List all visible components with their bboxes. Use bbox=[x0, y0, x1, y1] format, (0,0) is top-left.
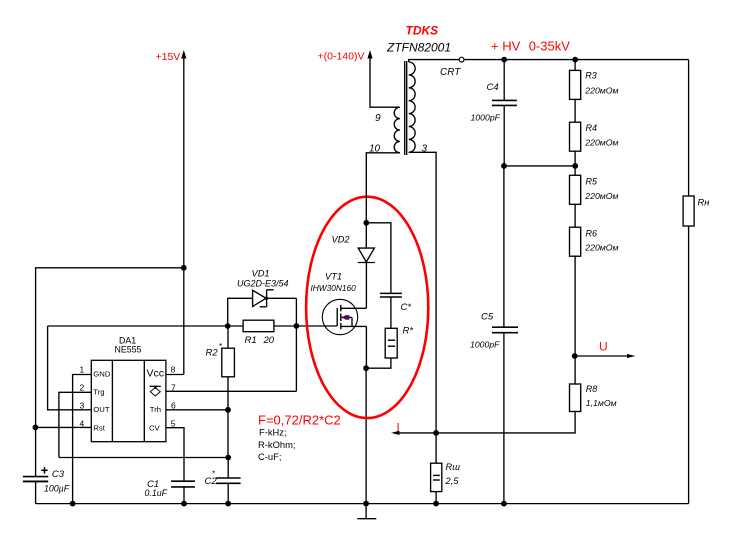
svg-text:4: 4 bbox=[80, 418, 85, 428]
label Rsh 2,5 bbox=[445, 462, 461, 486]
svg-text:C-uF;: C-uF; bbox=[258, 451, 281, 462]
label + HV 0-35kV bbox=[491, 38, 570, 53]
wire VD2 anode to top node bbox=[365, 223, 367, 248]
label pin names bbox=[93, 368, 164, 433]
label R* bbox=[403, 326, 414, 337]
node +15V/reset tee bbox=[181, 265, 187, 271]
wire C* to R* bbox=[390, 297, 392, 328]
svg-text:R1: R1 bbox=[245, 335, 257, 346]
transistor VT1 gate bar bbox=[336, 308, 338, 326]
svg-text:F=0,72/R2*C2: F=0,72/R2*C2 bbox=[258, 413, 341, 428]
resistor R2 bbox=[227, 326, 229, 458]
svg-text:VD1: VD1 bbox=[252, 268, 270, 278]
node Trh/R2 bbox=[225, 407, 231, 413]
label TDKS bbox=[406, 24, 439, 38]
wire +15V rail vertical bbox=[183, 54, 185, 375]
svg-text:8: 8 bbox=[171, 365, 176, 375]
svg-text:2,5: 2,5 bbox=[445, 476, 460, 486]
node gnd: source line bbox=[363, 501, 369, 507]
diode VD1 bbox=[253, 290, 266, 306]
node gnd: C5 bbox=[501, 501, 507, 507]
diode VD2 bbox=[358, 248, 374, 262]
discharge open-drain symbol pin7 bbox=[150, 385, 161, 387]
power +15V label bbox=[156, 51, 181, 63]
svg-text:20: 20 bbox=[263, 335, 275, 346]
svg-text:UG2D-E3/54: UG2D-E3/54 bbox=[237, 278, 289, 288]
svg-text:R4: R4 bbox=[586, 123, 598, 133]
power +(0-140)V label bbox=[318, 51, 365, 63]
svg-text:6: 6 bbox=[171, 401, 176, 411]
wire pin6 Trh stub bbox=[166, 409, 228, 411]
resistor R5 bbox=[570, 175, 581, 204]
svg-text:R2: R2 bbox=[206, 348, 219, 359]
svg-text:CRT: CRT bbox=[440, 67, 461, 78]
node R3 top bbox=[572, 57, 578, 63]
label CRT bbox=[440, 67, 461, 78]
label I current arrow bbox=[397, 423, 400, 435]
label C* bbox=[401, 302, 412, 313]
node U tap bbox=[572, 353, 578, 359]
wire Trg bottom run bbox=[59, 457, 228, 459]
transformer T1 primary winding bbox=[394, 107, 400, 153]
node C4 top bbox=[501, 57, 507, 63]
resistor R* bbox=[385, 328, 397, 358]
resistor R6 bbox=[570, 227, 581, 256]
label Rn bbox=[698, 198, 710, 208]
resistor R1 bbox=[243, 320, 274, 332]
svg-text:0-35kV: 0-35kV bbox=[529, 38, 571, 53]
op-amp U1 : timer DA1 NE555 body bbox=[91, 360, 166, 441]
node gate-drive left bbox=[225, 323, 231, 329]
wire supply to primary top bbox=[370, 54, 400, 107]
ground rail bbox=[36, 503, 689, 505]
svg-text:Vcc: Vcc bbox=[147, 368, 165, 380]
label VT1 bbox=[311, 272, 357, 294]
svg-text:Rst: Rst bbox=[93, 424, 105, 433]
node gnd: C2 bbox=[225, 501, 231, 507]
capacitor C* plates bbox=[380, 292, 402, 294]
svg-text:220мОм: 220мОм bbox=[584, 86, 618, 96]
svg-text:2: 2 bbox=[80, 383, 85, 393]
svg-text:C*: C* bbox=[401, 302, 412, 313]
svg-text:GND: GND bbox=[93, 370, 111, 379]
wire pin4 Rst stub bbox=[36, 426, 92, 428]
svg-text:220мОм: 220мОм bbox=[584, 191, 618, 201]
wire secondary bottom pin3 drop bbox=[409, 152, 436, 433]
svg-text:220мОм: 220мОм bbox=[584, 138, 618, 148]
svg-text:R*: R* bbox=[403, 326, 414, 337]
label ZTFN82001 bbox=[386, 41, 451, 55]
node drain top bbox=[363, 220, 369, 226]
label pin 9 bbox=[375, 113, 381, 124]
wire pin7 stub bbox=[166, 390, 297, 392]
svg-text:U: U bbox=[599, 340, 608, 354]
wire OUT gate run bbox=[48, 325, 338, 327]
svg-text:Trg: Trg bbox=[93, 388, 104, 397]
label C2* bbox=[205, 470, 218, 488]
wire pin1 GND stub bbox=[73, 375, 92, 504]
wire R* bottom to source node bbox=[366, 358, 391, 368]
svg-text:IHW30N160: IHW30N160 bbox=[311, 283, 357, 293]
transistor VT1 drain lead bbox=[341, 307, 367, 309]
label VD2 bbox=[332, 235, 351, 245]
label C1 bbox=[145, 479, 168, 498]
svg-text:C3: C3 bbox=[52, 469, 65, 480]
svg-text:0.1uF: 0.1uF bbox=[145, 488, 168, 498]
svg-text:R8: R8 bbox=[586, 384, 598, 394]
wire R5-R6 bbox=[574, 204, 576, 227]
svg-text:Trh: Trh bbox=[150, 405, 161, 414]
label VD1 bbox=[237, 268, 289, 288]
highlight ellipse bbox=[306, 197, 428, 418]
svg-text:1: 1 bbox=[80, 365, 85, 375]
node Trg/C2 bbox=[225, 455, 231, 461]
node C4/C5 bbox=[501, 163, 507, 169]
resistor R8 bbox=[570, 384, 581, 412]
svg-text:+(0-140)V: +(0-140)V bbox=[318, 51, 365, 63]
svg-text:100µF: 100µF bbox=[44, 483, 70, 493]
resistor Rsh bbox=[435, 433, 437, 463]
wire R8 bottom run with current arrow bbox=[399, 412, 575, 433]
node gate-drive right bbox=[294, 323, 300, 329]
node Rst junction bbox=[33, 425, 39, 431]
capacitor C2 plates bbox=[216, 477, 241, 479]
wire source line to ground bbox=[365, 326, 367, 368]
wire R6 to U node bbox=[574, 256, 576, 384]
label C3 bbox=[44, 469, 70, 494]
label pin 3 bbox=[422, 144, 428, 155]
wire pin3 OUT stub bbox=[48, 326, 92, 410]
svg-text:R6: R6 bbox=[586, 229, 598, 239]
wire pin7 riser bbox=[295, 298, 297, 391]
transformer T1 secondary winding bbox=[409, 62, 415, 152]
wire top horizontal to reset branch bbox=[36, 268, 184, 477]
power +(0-140)V arrow bbox=[367, 50, 372, 59]
label R1 20 bbox=[245, 335, 275, 346]
svg-text:VT1: VT1 bbox=[325, 272, 342, 282]
ground symbol bbox=[365, 504, 367, 519]
node R4/R5 bbox=[572, 163, 578, 169]
power +15V arrow bbox=[181, 50, 186, 59]
wire U arrow bbox=[575, 355, 630, 357]
wire pin8 Vcc stub bbox=[166, 374, 184, 376]
wire VD1 branch bbox=[228, 298, 297, 326]
svg-text:OUT: OUT bbox=[93, 405, 110, 414]
svg-text:R5: R5 bbox=[586, 177, 598, 187]
wire secondary top to CRT terminal bbox=[409, 60, 460, 62]
svg-text:VD2: VD2 bbox=[332, 235, 351, 245]
wire pin2 Trg stub bbox=[59, 392, 91, 457]
wire C1 to rail bbox=[183, 487, 185, 504]
pin numbers bbox=[80, 365, 177, 429]
svg-text:1000pF: 1000pF bbox=[471, 113, 501, 123]
transistor VT1 body arrow bbox=[351, 317, 353, 326]
svg-text:1000pF: 1000pF bbox=[470, 340, 500, 350]
svg-text:C4: C4 bbox=[487, 82, 499, 93]
node gnd: Rsh bbox=[433, 501, 439, 507]
svg-text:ZTFN82001: ZTFN82001 bbox=[386, 41, 451, 55]
capacitor C1 plates bbox=[171, 480, 195, 482]
node CRT terminal bbox=[459, 57, 464, 62]
svg-text:Rш: Rш bbox=[446, 462, 461, 472]
svg-text:+15V: +15V bbox=[156, 51, 181, 63]
transistor Q1 : MOSFET VT1 circle bbox=[322, 299, 357, 334]
svg-text:3: 3 bbox=[80, 401, 85, 411]
transistor VT1 source lead bbox=[341, 325, 367, 327]
wire C2 verticals bbox=[227, 458, 229, 479]
node Rsh top bbox=[433, 430, 439, 436]
label R2* bbox=[206, 342, 223, 359]
wire R4-R5 bbox=[574, 151, 576, 175]
svg-text:9: 9 bbox=[375, 113, 381, 124]
svg-text:+ HV: + HV bbox=[491, 38, 521, 53]
resistor R3 bbox=[574, 60, 576, 71]
svg-text:R3: R3 bbox=[585, 70, 597, 80]
label pin 10 bbox=[369, 144, 381, 155]
svg-text:Rн: Rн bbox=[698, 198, 710, 208]
wire primary bottom to drain node bbox=[366, 153, 400, 223]
wire mid rail bbox=[504, 165, 575, 167]
wire pin5 CV stub bbox=[166, 428, 184, 482]
label U bbox=[599, 340, 608, 354]
wire drain to VD2 bbox=[365, 263, 367, 309]
resistor R4 bbox=[574, 99, 576, 122]
resistor Rn load bbox=[688, 60, 690, 196]
svg-text:C5: C5 bbox=[481, 312, 494, 323]
wire snubber top bbox=[366, 223, 391, 293]
node gnd: C1 bbox=[181, 501, 187, 507]
capacitor C5 bbox=[503, 166, 505, 327]
node source bottom bbox=[363, 365, 369, 371]
transformer T1 core bbox=[404, 61, 406, 155]
label C4 bbox=[471, 82, 501, 123]
capacitor C3 polarity plus bbox=[41, 469, 47, 471]
label formula bbox=[258, 413, 341, 462]
label C5 bbox=[470, 312, 500, 350]
wire C3 to ground rail bbox=[35, 481, 37, 503]
label DA1 NE555 bbox=[115, 336, 142, 355]
capacitor C3 plates bbox=[23, 476, 48, 478]
wire HV top rail bbox=[464, 59, 688, 61]
svg-text:NE555: NE555 bbox=[115, 345, 142, 355]
transistor VT1 channel segments bbox=[340, 305, 342, 311]
svg-text:5: 5 bbox=[171, 418, 176, 428]
svg-text:1,1мОм: 1,1мОм bbox=[586, 398, 617, 408]
node gnd: pin1 drop bbox=[70, 501, 76, 507]
svg-text:CV: CV bbox=[149, 424, 161, 433]
svg-text:F-kHz;: F-kHz; bbox=[259, 427, 287, 438]
svg-text:R-kOhm;: R-kOhm; bbox=[258, 439, 296, 450]
capacitor C4 bbox=[503, 60, 505, 101]
svg-text:220мОм: 220мОм bbox=[584, 243, 618, 253]
svg-text:TDKS: TDKS bbox=[406, 24, 439, 38]
